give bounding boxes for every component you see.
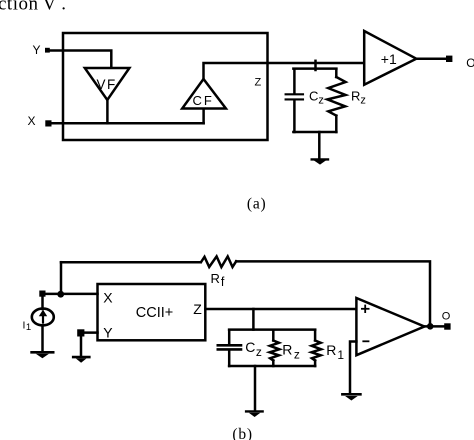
svg-text:CF: CF bbox=[193, 93, 214, 108]
svg-text:X: X bbox=[103, 289, 113, 305]
svg-text:(b): (b) bbox=[232, 426, 252, 440]
svg-text:CCII+: CCII+ bbox=[136, 305, 173, 321]
svg-text:X: X bbox=[28, 114, 36, 128]
svg-text:Y: Y bbox=[33, 43, 41, 57]
svg-text:O: O bbox=[466, 56, 474, 70]
svg-text:Z: Z bbox=[255, 77, 262, 89]
svg-text:(a): (a) bbox=[247, 196, 267, 213]
svg-text:Y: Y bbox=[103, 324, 113, 340]
svg-text:VF: VF bbox=[97, 77, 117, 92]
svg-text:O: O bbox=[442, 311, 451, 323]
svg-text:Z: Z bbox=[193, 301, 202, 317]
svg-text:+1: +1 bbox=[381, 51, 397, 67]
svg-text:I1: I1 bbox=[23, 319, 32, 333]
